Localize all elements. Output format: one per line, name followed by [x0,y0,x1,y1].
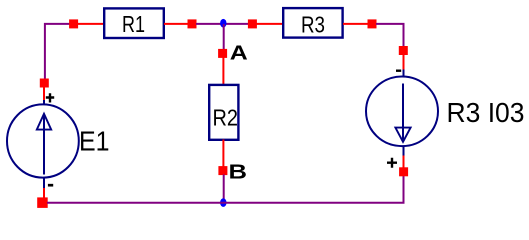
pin square: R3 right terminal [368,19,377,28]
wire: node A down to R2 top terminal (purple) [223,24,225,50]
pin square: R2 top terminal [218,49,227,58]
wire: R2 bottom terminal down to node B (purple) [223,175,225,203]
pin square: R3 left terminal [248,19,257,28]
wire: E1 top stub (navy) [43,100,45,107]
pin square: R2 bottom terminal [218,166,227,175]
pin square: R1 left terminal [69,19,78,28]
wire: R2 top pin lead (red) [222,58,224,86]
wire: current source bottom stub (navy) [403,146,405,157]
wire: E1 bottom pin lead (red) [43,188,45,198]
svg-text:R3 I03: R3 I03 [447,97,525,128]
label: current source plus sign [387,158,397,168]
wire: E1 top pin lead (red) [43,87,45,101]
wire: R1 right terminal to node A (purple) [196,23,224,25]
svg-text:R2: R2 [213,105,239,131]
pin square: E1 bottom terminal (bottom-left corner) [37,197,48,208]
wire: R3 right terminal to top-right corner down to current source (purple) [376,24,404,47]
wire: R2 bottom pin lead (red) [222,140,224,167]
wire: node A to R3 left terminal (purple) [224,23,249,25]
wire: bottom rail from E1 to node B to bottom-right corner (purple) [47,176,404,203]
node A junction dot [220,19,226,28]
wire: E1 bottom stub (navy) [43,178,45,189]
wire: R3 right pin lead (red) [343,23,368,25]
pin square: R1 right terminal [188,19,197,28]
wire: current source bottom pin lead (red) [403,156,405,169]
svg-text:R1: R1 [122,11,145,37]
pin square: current source bottom terminal [399,167,408,176]
voltage source E1 [7,104,79,177]
pin square: E1 top terminal [40,79,49,88]
resistor R2 [209,85,238,140]
svg-text:R3: R3 [301,12,325,38]
wire: R3 left pin lead (red) [256,23,283,25]
resistor R3 [283,8,342,37]
svg-text:A: A [230,43,248,65]
label: E1 minus sign [48,184,53,187]
current source R3 I03 [366,77,438,147]
wire: current source top pin lead (red) [403,55,405,71]
resistor R1 [104,8,164,38]
wire: top-left vertical + horizontal to R1 left pin (purple) [45,24,71,79]
wire: R1 right pin lead (red) [164,23,189,25]
pin square: current source top terminal [399,46,408,55]
label: current source minus sign [396,69,401,71]
wire: R1 left pin lead (red) [77,23,104,25]
node B junction dot [220,198,226,207]
svg-text:B: B [229,161,248,183]
svg-text:E1: E1 [79,125,110,156]
label: E1 plus sign [46,93,54,102]
wire: current source top stub (navy) [403,70,405,79]
